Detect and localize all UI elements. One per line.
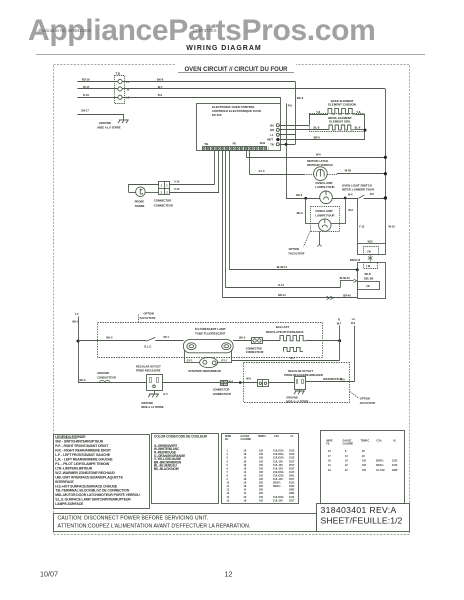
- wire ballast to neutral: [306, 340, 340, 342]
- inline connector on BK-6 wire: [100, 380, 111, 382]
- svg-text:GY-3: GY-3: [259, 169, 265, 173]
- svg-text:ES 300: ES 300: [212, 113, 222, 117]
- svg-text:3122: 3122: [289, 482, 295, 485]
- svg-text:GROUND: GROUND: [286, 395, 298, 399]
- svg-text:CSA: CSA: [274, 435, 279, 438]
- svg-text:SP-1: SP-1: [163, 336, 169, 339]
- wire L1 pin to BK-9 vertical: [279, 134, 295, 136]
- ballast connector: [252, 338, 263, 344]
- svg-text:WIRING DIAGRAM: WIRING DIAGRAM: [186, 45, 261, 52]
- probe connector 2-pin: [159, 182, 170, 195]
- svg-text:R.R. - RIGHT REAR/ARRIERE DROI: R.R. - RIGHT REAR/ARRIERE DROIT: [55, 449, 112, 453]
- wire W-7B from motor latch to neutral bus: [337, 173, 386, 175]
- svg-text:1015: 1015: [289, 453, 295, 456]
- ballast inductor winding 2: [284, 347, 304, 351]
- svg-text:PRISE REGULIERE: PRISE REGULIERE: [136, 369, 161, 373]
- probe sensor: [136, 187, 146, 197]
- part number box: [317, 504, 410, 532]
- svg-text:W-7: W-7: [290, 356, 295, 360]
- svg-text:BALLAST: BALLAST: [276, 325, 290, 329]
- svg-text:CSA: CSA: [377, 439, 382, 442]
- svg-text:CUL-150: CUL-150: [273, 499, 283, 502]
- svg-text:FIL: FIL: [326, 443, 330, 446]
- breaker ground: [299, 390, 301, 392]
- wire RD-16 to L1: [78, 81, 118, 83]
- svg-text:2517: 2517: [289, 464, 295, 467]
- outlet ground: [154, 390, 156, 394]
- broil element option dashed box: [310, 114, 365, 132]
- svg-text:W-7B: W-7B: [345, 168, 352, 172]
- svg-text:L.F. - LEFT FRONT/AVANT GAUCHE: L.F. - LEFT FRONT/AVANT GAUCHE: [55, 453, 111, 457]
- svg-text:DBL BK: DBL BK: [364, 277, 374, 280]
- svg-text:W-17: W-17: [83, 85, 90, 89]
- wire outlet to connector: [162, 382, 220, 384]
- svg-text:BK-9: BK-9: [157, 77, 164, 81]
- svg-text:INTER. LUMIERE FOUR: INTER. LUMIERE FOUR: [342, 188, 375, 192]
- outer diagram border: [54, 65, 410, 535]
- connector mating pins: [368, 255, 372, 263]
- svg-text:MDT: MDT: [267, 138, 273, 142]
- wire W-7 lamp return: [232, 360, 340, 362]
- svg-text:( W: ( W: [367, 250, 372, 253]
- svg-text:CUL/CSA: CUL/CSA: [273, 457, 284, 460]
- svg-text:3282: 3282: [289, 492, 295, 495]
- svg-text:L.R. - LEFT REAR/ARRIERE GAUCH: L.R. - LEFT REAR/ARRIERE GAUCHE: [55, 458, 113, 462]
- svg-text:3122: 3122: [392, 460, 398, 463]
- svg-text:BR-8: BR-8: [314, 135, 321, 139]
- svg-text:'L1': 'L1': [75, 313, 80, 316]
- svg-text:W-10: W-10: [389, 224, 396, 228]
- option dashed box around outlet breaker: [244, 363, 350, 403]
- svg-text:R-9: R-9: [158, 93, 163, 97]
- wire R-16 to L2: [78, 97, 118, 99]
- wire V-16 probe upper: [214, 151, 216, 184]
- wire BR-14 harness: [222, 151, 224, 298]
- svg-text:UL-1/52: UL-1/52: [376, 469, 385, 472]
- svg-text:150: 150: [259, 467, 264, 470]
- svg-text:105: 105: [259, 453, 264, 456]
- svg-text:105: 105: [259, 474, 264, 477]
- svg-text:B.L.S.: B.L.S.: [144, 345, 151, 348]
- svg-text:CALIBRE: CALIBRE: [343, 443, 354, 446]
- wire R-9 lamp feeder vertical: [286, 103, 288, 198]
- svg-text:FIL: FIL: [225, 438, 229, 441]
- svg-text:CUL/CSA: CUL/CSA: [273, 474, 284, 477]
- svg-text:1015: 1015: [289, 457, 295, 460]
- svg-text:G-6: G-6: [163, 393, 168, 396]
- element common node: [364, 114, 366, 139]
- svg-text:V-16: V-16: [174, 180, 180, 183]
- svg-text:250: 250: [259, 482, 264, 485]
- wire BK-5 lamp to ballast connector: [233, 340, 251, 342]
- svg-text:OPTION: OPTION: [289, 247, 299, 251]
- wire BL-8 broil from BR pin: [279, 129, 329, 131]
- svg-text:GROUND: GROUND: [99, 121, 111, 125]
- svg-text:MISE A LA TERRE: MISE A LA TERRE: [141, 405, 164, 409]
- outlet connector pair: [221, 381, 228, 386]
- svg-text:Publication No: 5995421905: Publication No: 5995421905: [39, 28, 92, 33]
- svg-text:BL/W-19: BL/W-19: [340, 277, 351, 280]
- wire W-7 bus from N: [122, 88, 385, 90]
- bake element R-bake: [328, 108, 355, 114]
- svg-text:3282: 3282: [289, 489, 295, 492]
- svg-text:W-6: W-6: [348, 208, 353, 212]
- svg-text:BK,R: BK,R: [365, 273, 371, 276]
- svg-text:105: 105: [259, 450, 264, 453]
- svg-text:BK.-BLACK/NOIR: BK.-BLACK/NOIR: [154, 467, 180, 471]
- svg-text:FACULTATIF: FACULTATIF: [360, 401, 376, 405]
- svg-text:SHEET/FEUILLE:1/2: SHEET/FEUILLE:1/2: [321, 516, 403, 526]
- svg-text:N: N: [127, 87, 129, 91]
- svg-text:CAUTION: DISCONNECT POWER BEFO: CAUTION: DISCONNECT POWER BEFORE SERVICI…: [58, 515, 209, 521]
- svg-text:N: N: [338, 318, 340, 321]
- svg-text:R-16: R-16: [83, 93, 89, 97]
- svg-text:2651: 2651: [289, 474, 295, 477]
- svg-text:W-6: W-6: [316, 153, 321, 157]
- svg-text:TUBE FLUORESCENT: TUBE FLUORESCENT: [195, 332, 226, 336]
- svg-text:GROUND: GROUND: [141, 401, 153, 405]
- svg-text:250: 250: [259, 485, 264, 488]
- legend box: [54, 435, 150, 509]
- svg-text:OVEN CIRCUIT // CIRCUIT DU FOU: OVEN CIRCUIT // CIRCUIT DU FOUR: [185, 67, 289, 73]
- svg-text:CONDUCTEUR: CONDUCTEUR: [97, 376, 116, 380]
- svg-text:150: 150: [259, 499, 264, 502]
- svg-text:CONNECTOR: CONNECTOR: [154, 199, 171, 203]
- wire R-9 drop at control corner: [280, 97, 282, 103]
- svg-text:BR-40: BR-40: [343, 293, 351, 297]
- svg-text:BK-5: BK-5: [239, 336, 246, 340]
- svg-text:OPTION: OPTION: [144, 312, 154, 316]
- svg-text:2517: 2517: [289, 467, 295, 470]
- svg-text:BR-14: BR-14: [278, 293, 286, 297]
- caution box: [54, 514, 317, 532]
- wire Y-8 bake from BA pin: [279, 125, 309, 127]
- svg-text:1015: 1015: [289, 450, 295, 453]
- svg-text:REGULATEUR PUISSANCE: REGULATEUR PUISSANCE: [266, 330, 304, 334]
- svg-text:ELEMENT GRIL: ELEMENT GRIL: [329, 120, 351, 124]
- svg-text:2517: 2517: [289, 478, 295, 481]
- wire connector to breaker outlet: [268, 382, 294, 384]
- svg-text:105: 105: [362, 464, 367, 467]
- svg-text:TN: TN: [270, 142, 274, 146]
- svg-text:LAMPE-SURFACE: LAMPE-SURFACE: [55, 502, 84, 506]
- oven lamp 2 option dashed box: [311, 207, 340, 232]
- svg-text:T.B.: T.B.: [116, 71, 122, 75]
- svg-text:2517: 2517: [289, 460, 295, 463]
- svg-text:R.F. - RIGHT FRONT/AVANT DROIT: R.F. - RIGHT FRONT/AVANT DROIT: [55, 444, 109, 448]
- wire W-6 lamp 2 return: [331, 223, 345, 225]
- wire R-9 vertical to outlet breaker: [354, 326, 356, 382]
- wire gauge table 2: [321, 431, 405, 504]
- svg-text:105: 105: [259, 471, 264, 474]
- svg-text:GN-17: GN-17: [81, 108, 89, 112]
- svg-text:T.B.-TERMINAL BLOCK/BLOC DE CO: T.B.-TERMINAL BLOCK/BLOC DE CONNECTION: [55, 489, 130, 493]
- svg-text:CUL/CSA: CUL/CSA: [273, 471, 284, 474]
- oven light switch blade: [358, 195, 364, 199]
- svg-text:DISJONCTEUR: DISJONCTEUR: [323, 377, 342, 381]
- wire BK-5 to lamp switch: [78, 340, 146, 342]
- wire BK-9 to oven lamp 1: [286, 198, 320, 200]
- svg-text:FLUORESCENT LAMP: FLUORESCENT LAMP: [195, 327, 226, 331]
- wire BK-9 branch to lamp 2: [305, 198, 307, 224]
- svg-text:150: 150: [259, 460, 264, 463]
- svg-text:UIB.-UNIT INTERFACE BOARD/PLAQ: UIB.-UNIT INTERFACE BOARD/PLAQUETTE: [55, 475, 123, 479]
- svg-text:STARTER/ DEMARREUR: STARTER/ DEMARREUR: [188, 369, 221, 373]
- svg-text:SEW-1: SEW-1: [273, 482, 281, 485]
- connector block DBL BK: [358, 263, 386, 299]
- svg-text:250: 250: [259, 489, 264, 492]
- inline connector on BR wire: [327, 296, 334, 299]
- wire V-16 probe lower: [218, 151, 220, 192]
- svg-text:OPTION: OPTION: [360, 397, 370, 401]
- probe leads: [129, 192, 136, 194]
- wire W-6 lamp to switch: [332, 198, 358, 200]
- electronic oven control ES300: [197, 104, 281, 151]
- svg-text:FACULTATIF: FACULTATIF: [289, 251, 305, 255]
- svg-text:3286: 3286: [392, 469, 398, 472]
- svg-text:( W: ( W: [366, 265, 371, 268]
- svg-text:BA: BA: [270, 123, 274, 127]
- svg-text:H.S.-HOT SURFACE/SURFACE CHAUD: H.S.-HOT SURFACE/SURFACE CHAUDE: [55, 484, 118, 488]
- wire R-9 bus from L2: [122, 97, 281, 99]
- svg-text:K05: K05: [368, 240, 373, 244]
- svg-text:LTR.-LIMITER/LIMITEUR: LTR.-LIMITER/LIMITEUR: [55, 466, 93, 470]
- svg-text:( W: ( W: [366, 285, 371, 288]
- svg-text:LAMPE FOUR: LAMPE FOUR: [315, 185, 335, 189]
- svg-text:GROUND: GROUND: [97, 371, 109, 375]
- svg-text:SEW-1: SEW-1: [376, 460, 384, 463]
- svg-text:S.L.S.-SURFACE LAMP SWITCH/INT: S.L.S.-SURFACE LAMP SWITCH/INTERRUPTEUR: [55, 498, 131, 502]
- wire BL/W-14 harness: [229, 151, 231, 270]
- svg-text:10/07: 10/07: [40, 570, 58, 579]
- svg-text:W-6: W-6: [348, 193, 353, 196]
- svg-text:3173: 3173: [392, 464, 398, 467]
- wire lamp 2 stub to connector: [319, 231, 321, 244]
- svg-text:CUL-150: CUL-150: [273, 467, 283, 470]
- wire GN-17 ground lead: [78, 114, 124, 116]
- svg-text:SW. - SWITCH/INTERRUPTEUR: SW. - SWITCH/INTERRUPTEUR: [55, 440, 103, 444]
- ground symbol mise a la terre: [118, 120, 129, 123]
- svg-text:CUL/CSA: CUL/CSA: [273, 496, 284, 499]
- svg-text:UL: UL: [291, 435, 295, 438]
- wire gauge table 1: [222, 434, 299, 504]
- surface lamp switch SP-1: [146, 337, 155, 341]
- svg-text:RD-16: RD-16: [82, 77, 90, 81]
- svg-text:MISE A LA TERRE: MISE A LA TERRE: [98, 125, 121, 129]
- svg-text:BL-8: BL-8: [355, 126, 361, 130]
- svg-text:PROBE: PROBE: [135, 199, 145, 203]
- svg-text:GY-1: GY-1: [187, 359, 193, 362]
- svg-text:105: 105: [259, 457, 264, 460]
- wire BK-6 to regular outlet: [78, 382, 146, 384]
- svg-text:SEW-1: SEW-1: [376, 464, 384, 467]
- svg-text:INTERFACE: INTERFACE: [55, 480, 74, 484]
- svg-text:W-7: W-7: [158, 85, 163, 89]
- svg-text:2517: 2517: [289, 499, 295, 502]
- svg-text:CONNECTEUR: CONNECTEUR: [154, 203, 173, 207]
- svg-text:COLOR CODE/CODE DE COULEUR: COLOR CODE/CODE DE COULEUR: [154, 435, 208, 439]
- svg-text:P.L. - PILOT LIGHT/LAMPE TEMOI: P.L. - PILOT LIGHT/LAMPE TEMOIN: [55, 462, 110, 466]
- svg-text:150: 150: [259, 464, 264, 467]
- svg-text:1015: 1015: [289, 471, 295, 474]
- svg-text:CONNECTOR: CONNECTOR: [213, 388, 230, 392]
- wire GY-3 to door latch motor: [249, 151, 251, 174]
- svg-text:R-9: R-9: [288, 104, 293, 108]
- svg-text:CALIBRE: CALIBRE: [241, 438, 252, 441]
- svg-text:BK-5: BK-5: [106, 335, 113, 339]
- wire BK-9 lamp circuit feeder: [78, 317, 80, 383]
- svg-text:3122: 3122: [289, 485, 295, 488]
- pin MDT: [276, 138, 279, 141]
- fluorescent lamp FL1: [183, 340, 233, 353]
- svg-text:SONDE: SONDE: [135, 204, 145, 208]
- svg-text:MISE A LA TERRE: MISE A LA TERRE: [286, 400, 309, 404]
- svg-text:CFEF372ES: CFEF372ES: [193, 28, 217, 33]
- wire BK-9 vertical drop to L1 pin and DLB: [295, 82, 297, 145]
- svg-text:UL: UL: [393, 439, 397, 442]
- wire W neutral vertical bus: [385, 89, 387, 244]
- color code box: [152, 434, 219, 504]
- svg-text:CONNECTEUR: CONNECTEUR: [246, 351, 264, 354]
- svg-text:P5: P5: [233, 141, 237, 145]
- svg-text:FACULTATIF: FACULTATIF: [140, 316, 156, 320]
- svg-text:SEW-1: SEW-1: [273, 485, 281, 488]
- svg-text:150: 150: [259, 478, 264, 481]
- junction node on outlet wire: [227, 382, 258, 384]
- wire R-8 switch to neutral bus: [364, 198, 386, 200]
- svg-text:105: 105: [362, 469, 367, 472]
- wire W-17 to N: [78, 88, 118, 90]
- svg-text:V-16: V-16: [174, 188, 180, 191]
- svg-text:TEMP.C: TEMP.C: [361, 439, 370, 442]
- svg-text:Y-13: Y-13: [359, 224, 365, 228]
- svg-text:CUL/CSA: CUL/CSA: [273, 450, 284, 453]
- svg-text:105: 105: [259, 496, 264, 499]
- wire O-14 harness: [225, 151, 227, 288]
- outlet breaker: [295, 377, 306, 390]
- wire BK-9 bus from L1: [122, 81, 295, 83]
- terminal block T.B.: [115, 76, 125, 104]
- svg-text:DLB: DLB: [260, 141, 265, 145]
- pin L1: [276, 133, 279, 136]
- svg-text:BK-9: BK-9: [297, 96, 304, 100]
- title block OVEN CIRCUIT: [176, 64, 296, 74]
- pin DLB: [276, 143, 279, 146]
- svg-text:O-14: O-14: [278, 283, 284, 287]
- svg-text:ATTENTION:COUPEZ L'ALIMENTATIO: ATTENTION:COUPEZ L'ALIMENTATION AVANT D'…: [58, 523, 251, 529]
- svg-text:12: 12: [225, 570, 233, 579]
- svg-text:CONNECTEUR: CONNECTEUR: [213, 392, 231, 396]
- pin BR: [276, 128, 279, 131]
- connector inner block: [358, 282, 380, 290]
- svg-text:318403401 REV:A: 318403401 REV:A: [321, 505, 397, 515]
- svg-text:BK-9: BK-9: [296, 193, 303, 197]
- wire BR-8 from MDT pin to element common: [279, 139, 365, 141]
- svg-text:REGULAR OUTLET: REGULAR OUTLET: [136, 364, 161, 368]
- svg-text:LAMPE FOUR: LAMPE FOUR: [315, 213, 335, 217]
- svg-text:BK/W-10: BK/W-10: [350, 259, 361, 262]
- svg-text:BK-9: BK-9: [297, 211, 304, 215]
- svg-text:BL-8: BL-8: [314, 126, 320, 130]
- starter S1: [200, 357, 218, 367]
- svg-text:TEMP.C: TEMP.C: [258, 435, 267, 438]
- pin BA: [276, 124, 279, 127]
- svg-text:MDL-MOTOR DOOR LATCH/MOTEUR PO: MDL-MOTOR DOOR LATCH/MOTEUR PORTE VERROU: [55, 493, 140, 497]
- svg-text:OVEN LAMP: OVEN LAMP: [315, 209, 332, 213]
- lamp to starter wiring: [184, 350, 186, 363]
- svg-text:BR: BR: [270, 128, 274, 132]
- svg-text:BK-6: BK-6: [80, 378, 87, 382]
- ballast inductor winding 1: [263, 340, 280, 342]
- wire Y-13 switch to connector K05: [357, 198, 359, 243]
- wire W-7 vertical: [339, 326, 341, 361]
- svg-text:GY-1: GY-1: [221, 359, 227, 362]
- option dashed box around lamp assembly: [98, 323, 323, 358]
- svg-text:105: 105: [362, 460, 367, 463]
- svg-text:CUL-150: CUL-150: [273, 478, 283, 481]
- svg-text:BL/W-14: BL/W-14: [277, 265, 288, 269]
- svg-text:W-9: W-9: [246, 377, 251, 380]
- svg-text:R-9: R-9: [351, 322, 356, 325]
- svg-text:TB: TB: [204, 142, 208, 146]
- svg-text:250: 250: [259, 492, 264, 495]
- header rule: [36, 54, 425, 56]
- svg-text:W.Z.-WARMER ZONE/ZONE RECHAUD: W.Z.-WARMER ZONE/ZONE RECHAUD: [55, 471, 115, 475]
- svg-text:1015: 1015: [289, 496, 295, 499]
- svg-text:CUL/CSA: CUL/CSA: [273, 453, 284, 456]
- broil element R-broil: [329, 125, 354, 130]
- svg-text:R-8: R-8: [370, 193, 375, 196]
- svg-text:W-7: W-7: [337, 323, 342, 326]
- svg-text:CUL-150: CUL-150: [273, 460, 283, 463]
- svg-text:ELEMENT CUISSON: ELEMENT CUISSON: [328, 103, 356, 107]
- svg-text:CUL-150: CUL-150: [273, 464, 283, 467]
- svg-text:REGULAR OUTLET: REGULAR OUTLET: [288, 369, 313, 373]
- wire W-6 bus from connector: [246, 151, 248, 157]
- wire from DLB pin with junction: [279, 144, 295, 146]
- svg-text:CONNECTOR: CONNECTOR: [246, 347, 262, 350]
